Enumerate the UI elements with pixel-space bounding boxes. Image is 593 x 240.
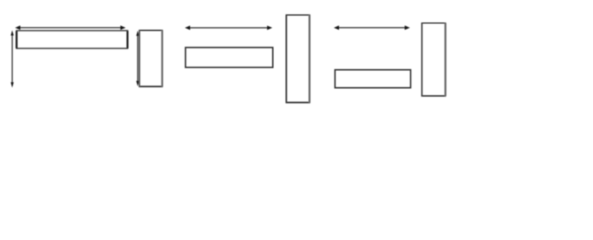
wide horizontal bar rect 2 [186, 48, 273, 68]
horizontal double arrow (width dimension, above wide bar 2) [185, 26, 272, 30]
horizontal double arrow (width dimension, above wide bar 1) [15, 26, 126, 30]
vertical double arrow (height dimension, left of tall bar 1) [136, 31, 139, 87]
horizontal double arrow (width dimension, above wide bar 3) [334, 26, 410, 30]
tall narrow bar rect 3 [421, 23, 446, 96]
tall narrow bar rect 2 [286, 15, 311, 103]
wide horizontal bar rect 1 [17, 31, 128, 49]
wide horizontal bar rect 3 [335, 70, 411, 88]
tall narrow bar rect 1 [139, 30, 163, 86]
vertical double arrow (height dimension, left of wide bar 1) [11, 30, 14, 87]
